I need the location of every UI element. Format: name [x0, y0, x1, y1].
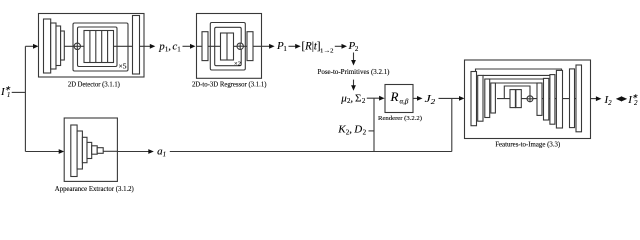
- svg-text:×2: ×2: [234, 60, 241, 67]
- detector conv bars group: [84, 31, 114, 63]
- appearance bar 3: [82, 137, 87, 162]
- detector output bar: [133, 16, 140, 75]
- features skip line 2: [483, 74, 550, 76]
- features skip line 3: [490, 78, 544, 80]
- detector encoder bar 4: [61, 31, 65, 60]
- wire features internal: [497, 98, 578, 100]
- detector encoder bar 2: [51, 23, 56, 69]
- svg-text:1: 1: [283, 45, 287, 53]
- svg-text:2: 2: [355, 45, 359, 53]
- node I1* input label: [0, 85, 11, 100]
- features left bar 2: [478, 75, 483, 121]
- wire renderer out: [413, 97, 421, 99]
- svg-text:×5: ×5: [119, 61, 127, 70]
- appearance bar 5: [92, 146, 98, 154]
- appearance bar 2: [77, 131, 82, 169]
- Features-to-Image (3.3) outer box: [465, 60, 591, 139]
- svg-text:1: 1: [177, 45, 181, 53]
- svg-text:[R|t]: [R|t]: [302, 39, 321, 53]
- wire pose-to-primitives down to mu sigma: [353, 80, 355, 90]
- detector encoder bar 1: [44, 19, 51, 73]
- features residual loop: [504, 86, 530, 99]
- features skip line 4: [495, 82, 537, 84]
- features left bar 1: [471, 72, 477, 126]
- features skip line 1: [476, 69, 562, 72]
- wire P1 to Rt: [289, 45, 300, 47]
- features right bar 1: [537, 83, 542, 115]
- regressor loop box x2: [210, 23, 245, 71]
- renderer R alpha beta symbol: [390, 89, 409, 105]
- appearance bar 1: [71, 125, 77, 177]
- svg-text:Renderer (3.2.2): Renderer (3.2.2): [378, 115, 422, 122]
- wire junction riser down: [373, 98, 375, 151]
- features middle bar 1: [510, 90, 515, 108]
- svg-text:2: 2: [363, 128, 367, 136]
- svg-text:α,β: α,β: [400, 98, 409, 106]
- appearance bar 4: [87, 142, 92, 158]
- wire p1c1 to regressor: [183, 45, 195, 47]
- svg-text:2D-to-3D Regressor (3.1.1): 2D-to-3D Regressor (3.1.1): [192, 80, 267, 88]
- wire features out: [591, 98, 600, 100]
- svg-text:Pose-to-Primitives (3.2.1): Pose-to-Primitives (3.2.1): [318, 68, 391, 76]
- features left bar 4: [491, 83, 496, 113]
- svg-text:,: ,: [349, 124, 352, 136]
- wire a1 long bottom: [170, 151, 452, 153]
- wire appearance internal out: [103, 150, 117, 152]
- regressor left bar: [202, 32, 208, 61]
- wire bottom riser to J2 line: [451, 98, 453, 151]
- wire mu sigma to renderer: [367, 97, 383, 99]
- svg-text:D: D: [353, 124, 362, 136]
- wire Rt to P2: [335, 45, 346, 47]
- svg-text:I∗2: I∗2: [627, 93, 638, 108]
- features far bar B: [576, 65, 582, 132]
- wire detector out: [144, 45, 154, 47]
- svg-text:,: ,: [350, 92, 353, 104]
- features right bar 3: [550, 75, 555, 125]
- features left bar 3: [485, 79, 490, 118]
- svg-text:Σ: Σ: [355, 92, 361, 104]
- 2D Detector (3.1.1) outer box: [39, 14, 145, 78]
- svg-text:Appearance Extractor (3.1.2): Appearance Extractor (3.1.2): [55, 185, 135, 193]
- wire J2 to features box: [439, 97, 464, 99]
- features adder: [527, 96, 533, 102]
- svg-text:R: R: [390, 89, 399, 104]
- features far bar A: [570, 69, 575, 128]
- node [R|t]1to2: [302, 39, 334, 55]
- wire K2 D2 stub: [369, 130, 375, 132]
- svg-text:,: ,: [168, 41, 171, 53]
- svg-text:2: 2: [362, 97, 366, 105]
- svg-text:Features-to-Image (3.3): Features-to-Image (3.3): [495, 139, 561, 148]
- detector residual box: [78, 27, 118, 67]
- regressor conv bars group: [221, 33, 234, 60]
- detector adder: [74, 43, 80, 49]
- wire into Appearance Extractor: [25, 151, 62, 153]
- regressor adder: [237, 43, 243, 49]
- svg-text:1→2: 1→2: [320, 48, 334, 55]
- wire P2 down to pose-to-primitives: [353, 53, 355, 64]
- features right bar 2: [544, 78, 549, 120]
- svg-text:I∗1: I∗1: [0, 85, 11, 100]
- wire junction vertical: [24, 46, 26, 151]
- features right bar 4: [556, 70, 562, 128]
- regressor right bar: [247, 32, 253, 61]
- wire regressor internal: [197, 45, 262, 47]
- Renderer box: [385, 85, 413, 113]
- regressor residual box: [215, 27, 242, 65]
- appearance bar 6: [97, 148, 103, 154]
- svg-text:I2: I2: [604, 94, 613, 107]
- features middle bar 2: [516, 90, 521, 108]
- compare arrow I2 to I2*: [616, 96, 627, 101]
- wire regressor out: [262, 45, 274, 47]
- wire detector internal: [64, 45, 144, 47]
- Appearance Extractor (3.1.2) box: [64, 118, 117, 181]
- wire into 2D Detector: [25, 45, 36, 47]
- wire I1* to junction: [12, 91, 26, 93]
- svg-text:2D Detector (3.1.1): 2D Detector (3.1.1): [68, 80, 121, 88]
- detector encoder bar 3: [56, 26, 61, 66]
- svg-text:J2: J2: [425, 93, 436, 106]
- wire a1 out of appearance extractor: [117, 151, 152, 153]
- 2D-to-3D Regressor (3.1.1) outer box: [197, 14, 262, 79]
- detector loop box x5: [73, 23, 128, 71]
- svg-text:a1: a1: [157, 146, 166, 159]
